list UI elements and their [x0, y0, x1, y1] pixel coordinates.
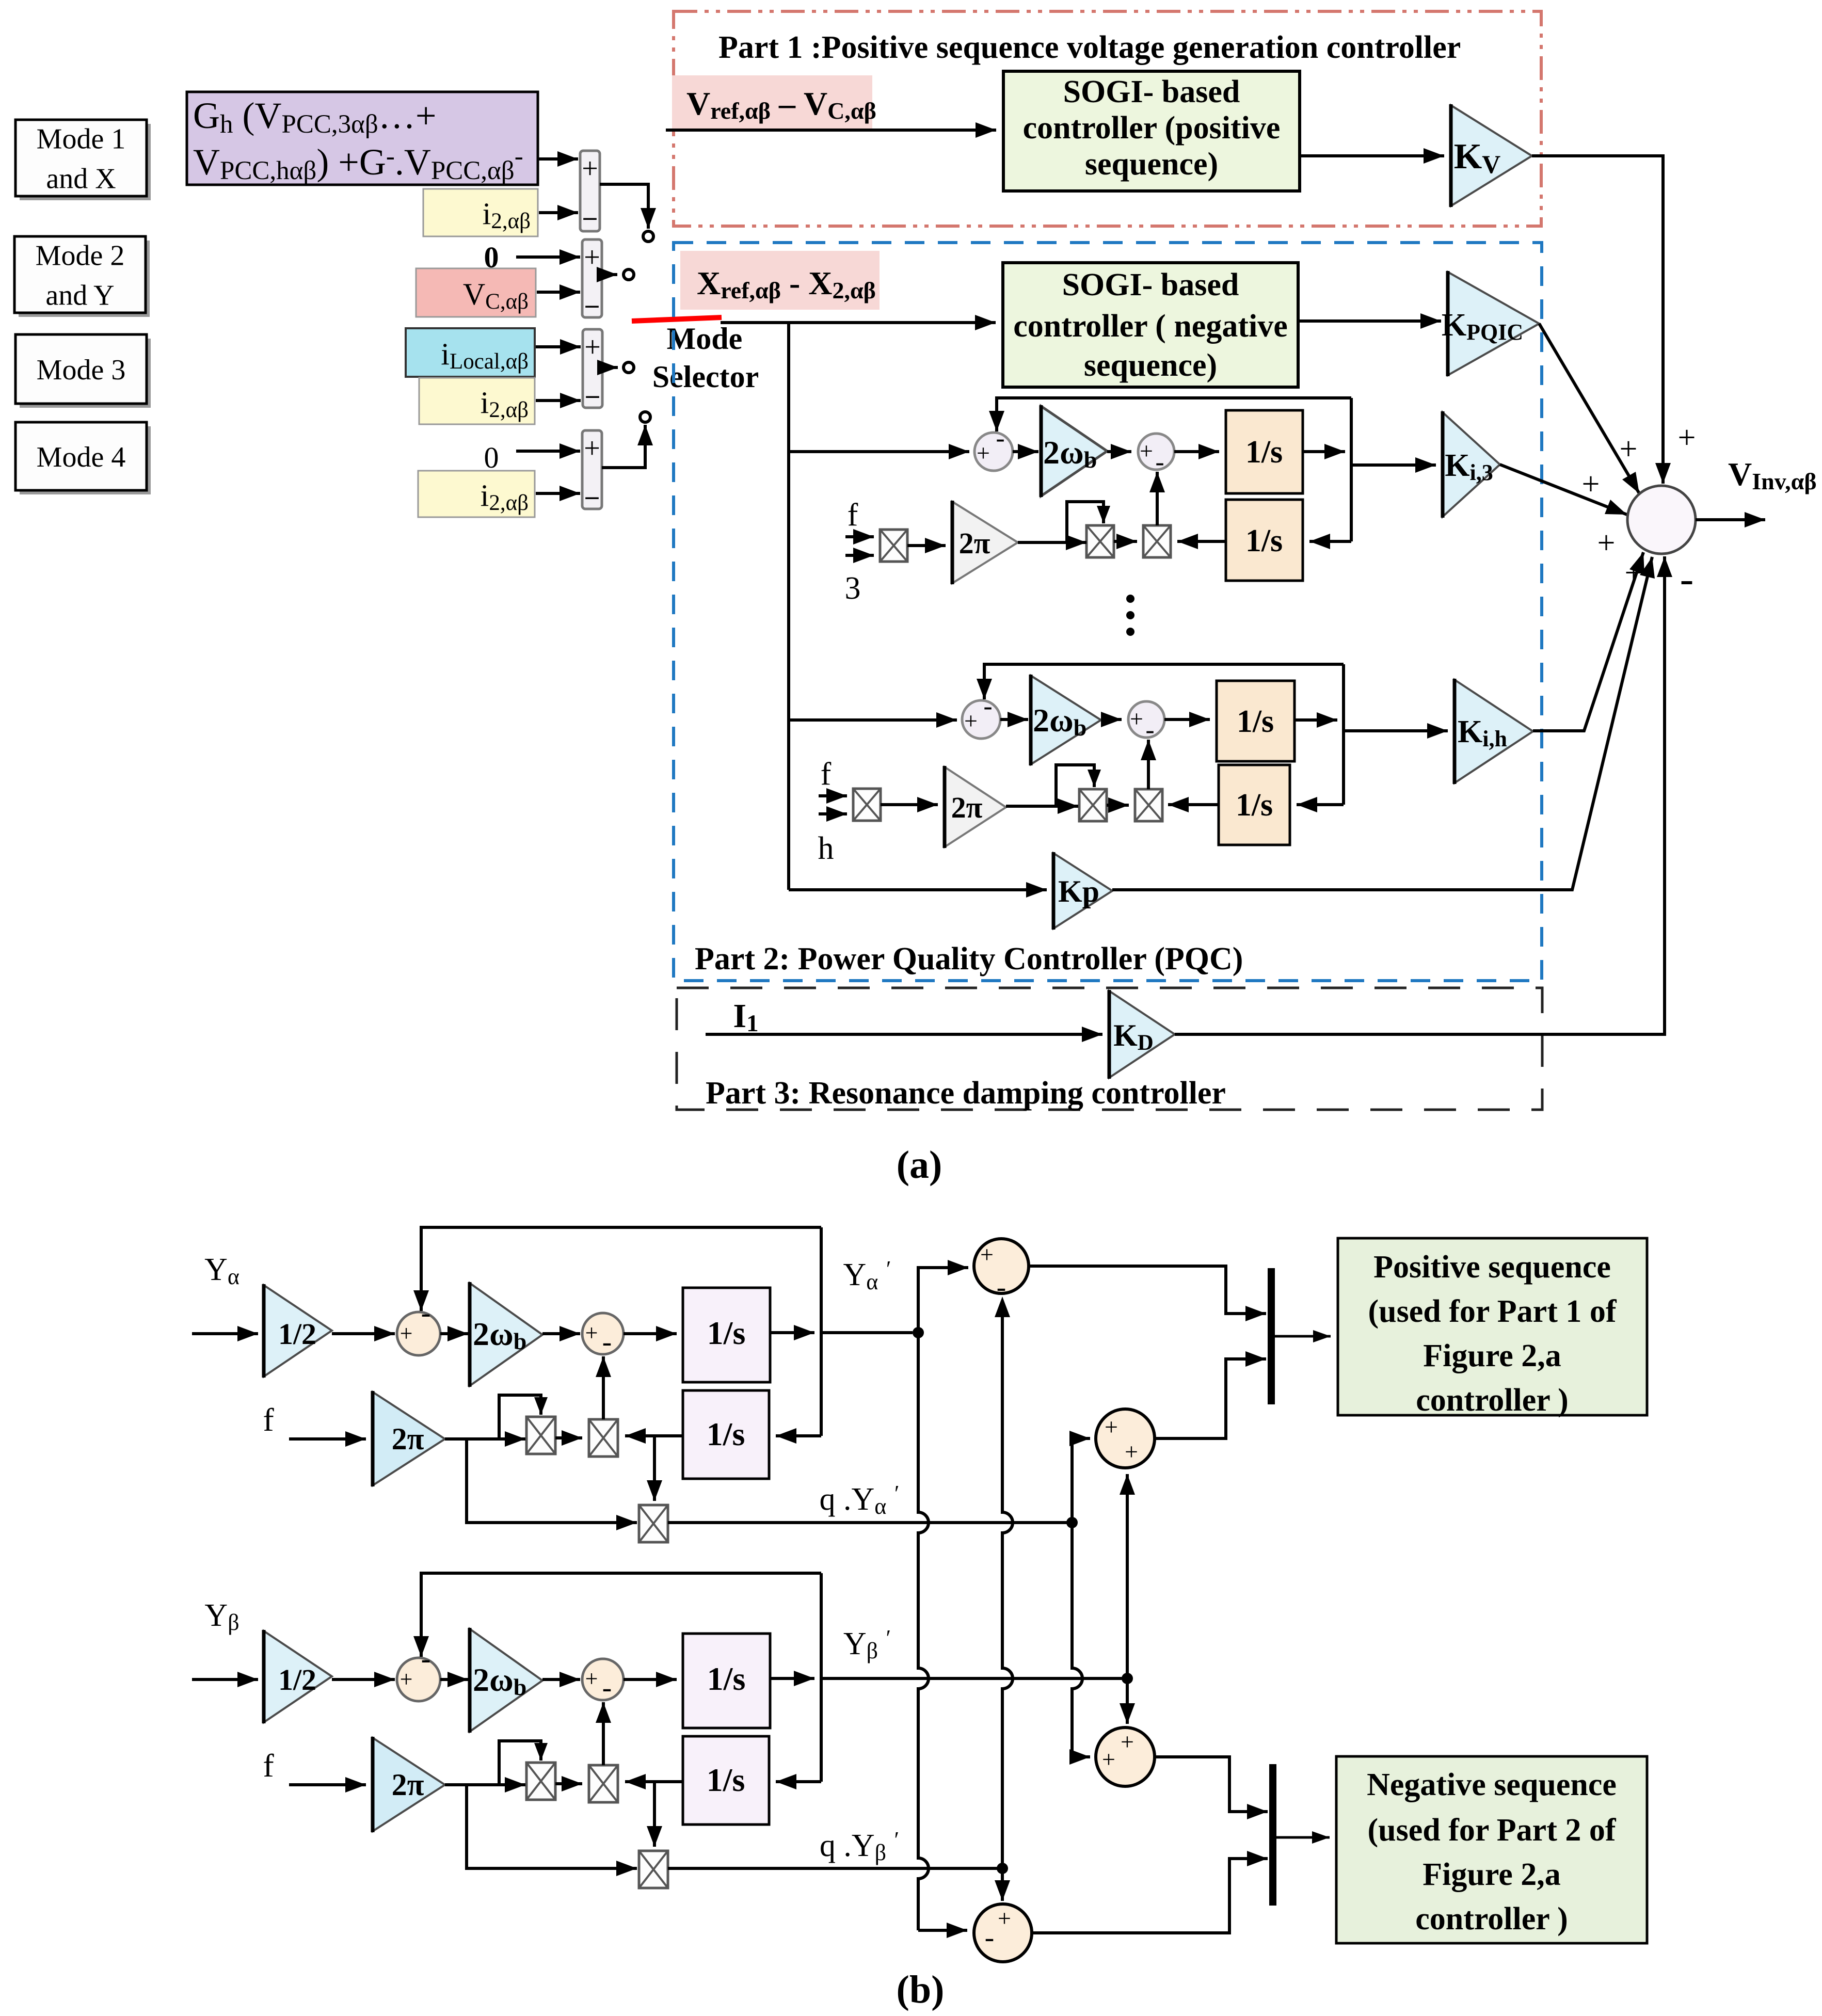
wire 1/s2 to X2 h3	[1177, 540, 1226, 543]
svg-text:–: –	[586, 380, 600, 409]
gain Kp	[1053, 853, 1112, 929]
gain KPQIC	[1448, 272, 1539, 375]
wire 1/s out to bus α	[770, 1331, 814, 1334]
svg-text:controller ): controller )	[1415, 1901, 1568, 1937]
wire 1/s out to bus hh	[1294, 718, 1337, 722]
wire feedback α	[421, 1227, 821, 1311]
svg-text:+: +	[400, 1667, 413, 1692]
wire Ybeta up to C2	[1126, 1474, 1129, 1678]
svg-text:Mode: Mode	[667, 322, 743, 356]
wire sum1 to 2wb β	[440, 1678, 468, 1681]
block 1/s h3-1	[1226, 410, 1303, 493]
wire 2pi loop over X1 β	[499, 1741, 541, 1785]
svg-text:+: +	[998, 1905, 1011, 1931]
Part 3 black dashed border	[677, 988, 1542, 1110]
wire feedback top h3	[997, 398, 1351, 431]
bus bar negative	[1269, 1764, 1276, 1906]
multiplier X2 h3	[1143, 525, 1171, 557]
svg-text:controller ( negative: controller ( negative	[1013, 309, 1287, 344]
sum1 β	[397, 1658, 440, 1701]
multiplier X3 α	[639, 1505, 668, 1542]
sum C3 neg-alpha	[1096, 1727, 1155, 1786]
wire i2-2 to S3-	[536, 399, 581, 402]
multiplier X2 α	[589, 1419, 618, 1457]
svg-text:(b): (b)	[897, 1968, 945, 2011]
wire KD to sum	[1175, 556, 1665, 1034]
svg-text:1/s: 1/s	[707, 1416, 745, 1452]
wire bar1 to posbox	[1275, 1335, 1331, 1338]
wire C4 to bar2	[1032, 1859, 1268, 1933]
switch contact S1	[643, 231, 653, 242]
wire right bus α	[820, 1227, 823, 1436]
gain Ki3	[1443, 412, 1500, 517]
gain 2wb β	[470, 1629, 542, 1732]
svg-text:(a): (a)	[897, 1143, 942, 1187]
wire bus to Ki3	[1351, 463, 1436, 467]
svg-text:Figure 2,a: Figure 2,a	[1423, 1857, 1561, 1892]
wire 1/s out to bus h3	[1303, 450, 1345, 453]
block Negative sequence	[1336, 1756, 1647, 1943]
svg-text:–: –	[583, 202, 597, 231]
gain KV	[1451, 105, 1532, 206]
svg-text:f: f	[821, 757, 832, 792]
svg-text:Mode 3: Mode 3	[37, 354, 126, 386]
svg-text:Figure 2,a: Figure 2,a	[1423, 1338, 1561, 1373]
wire X1 to X2 β	[555, 1782, 582, 1785]
gain 2wb h3	[1041, 406, 1107, 496]
block 1/s β2	[683, 1736, 769, 1825]
svg-text:+: +	[582, 153, 598, 185]
wire 1/2 to sum1 α	[332, 1332, 395, 1335]
junction qYbeta	[997, 1863, 1008, 1874]
wire Yβ into 1/2	[192, 1678, 258, 1681]
wire 1/s out to bus β	[770, 1677, 814, 1680]
multiplier X2 β	[589, 1765, 618, 1802]
wire sum1 to 2wb hh	[1000, 718, 1028, 721]
svg-text:sequence): sequence)	[1085, 147, 1218, 182]
wire Ybeta-prime line	[821, 1677, 1127, 1680]
wire bus to 1/s2 hh	[1297, 803, 1344, 806]
block Positive sequence	[1338, 1238, 1647, 1415]
svg-text:+: +	[1620, 431, 1638, 467]
summing rect S4	[582, 430, 602, 509]
wire Yalpha bus down	[918, 1333, 929, 1930]
block iLocal cyan	[406, 328, 535, 377]
svg-text:+: +	[584, 433, 600, 465]
block 1/s hh-2	[1219, 765, 1290, 845]
wire tap to sum hh	[789, 718, 957, 722]
wire bus to 1/s2 β	[776, 1780, 821, 1783]
svg-text:(used for Part 2 of: (used for Part 2 of	[1368, 1813, 1617, 1848]
wire I1 to KD	[706, 1033, 1102, 1036]
wire 1/2 to sum1 β	[332, 1678, 395, 1681]
svg-text:Mode 1: Mode 1	[37, 123, 126, 155]
block i2ab yellow 3	[418, 471, 535, 517]
wire 2wb to sum2 α	[542, 1332, 580, 1335]
wire sum1 to 2wb h3	[1013, 450, 1038, 453]
wire SOGI1 to KV	[1300, 154, 1444, 157]
svg-text:2π: 2π	[951, 791, 983, 824]
block 1/s α2	[683, 1390, 769, 1479]
wire X1 to X2 h3	[1114, 540, 1137, 543]
svg-text:0: 0	[484, 441, 499, 474]
svg-text:-: -	[602, 1326, 612, 1358]
switch contact S2	[624, 269, 634, 280]
wire S2 output	[602, 273, 617, 276]
svg-text:SOGI- based: SOGI- based	[1063, 74, 1240, 109]
wire 2pi down to X3 β	[467, 1785, 637, 1868]
wire Ki3 to sum diagonal	[1500, 465, 1627, 515]
svg-text:+: +	[1625, 555, 1643, 590]
gain 2wb hh	[1031, 676, 1101, 764]
gain 1/2 α	[264, 1285, 332, 1377]
sum circle hh-2	[1128, 701, 1164, 738]
wire qYalpha up to C2	[1072, 1438, 1090, 1523]
wire mult to 2pi hh	[881, 803, 938, 806]
Part 2 blue dashed border	[674, 243, 1542, 981]
block Mode 4	[15, 422, 151, 494]
wire Yalpha-prime to junction	[821, 1331, 913, 1334]
svg-text:+: +	[964, 708, 978, 734]
block 1/s β1	[683, 1634, 770, 1728]
wire f into mult	[845, 535, 874, 538]
sum2 α	[582, 1313, 624, 1354]
sum C2 pos-beta	[1096, 1409, 1155, 1468]
wire C1 to bar1	[1029, 1266, 1266, 1314]
svg-text:1/s: 1/s	[707, 1315, 746, 1351]
wire tap to Kp	[789, 888, 1047, 891]
wire KV to sum	[1532, 156, 1663, 484]
wire 2pi loop over X1 h3	[1067, 502, 1104, 542]
wire i2-1 to S1-	[539, 211, 578, 214]
wire sum2 to 1/s hh	[1164, 718, 1210, 721]
svg-text:+: +	[584, 331, 601, 363]
wire X2 up to sum2 β	[602, 1702, 605, 1765]
multiplier fh input	[853, 789, 881, 821]
gain KD	[1109, 991, 1175, 1078]
svg-text:1/s: 1/s	[1245, 523, 1283, 558]
block Mode 2 and Y	[14, 236, 150, 317]
svg-text:controller ): controller )	[1416, 1383, 1569, 1418]
wire sum2 to 1/s h3	[1174, 450, 1219, 453]
wire S3 output	[602, 366, 618, 369]
wire f into mult hh	[819, 794, 847, 797]
wire X1 to X2 α	[555, 1436, 582, 1439]
svg-text:1/s: 1/s	[1236, 788, 1273, 823]
wire C3 to bar2	[1155, 1757, 1268, 1812]
label Vref-VC highlighted	[672, 75, 872, 129]
wire X2 up to sum2 h3	[1156, 472, 1159, 525]
wire Ybeta down to C3	[1126, 1678, 1129, 1724]
wire 3 into mult	[845, 554, 874, 557]
svg-text:+: +	[1678, 420, 1696, 455]
vertical ellipsis dots	[1126, 595, 1134, 603]
wire qYbeta line	[668, 1867, 1002, 1870]
svg-text:and Y: and Y	[45, 280, 114, 312]
mode selector red arm	[632, 317, 722, 321]
wire 2pi down to X3 α	[467, 1439, 637, 1523]
svg-text:Mode 2: Mode 2	[36, 240, 125, 272]
svg-text:+: +	[1105, 1414, 1118, 1440]
wire junction down to X3 β	[653, 1782, 656, 1847]
wire f to 2pi α	[289, 1437, 366, 1441]
svg-text:-: -	[602, 1672, 612, 1704]
wire tap to sum h3	[789, 450, 969, 453]
sum C4 neg-beta	[974, 1904, 1032, 1962]
wire qYalpha line	[668, 1521, 1072, 1524]
wire 2pi loop over X1 hh	[1056, 765, 1094, 806]
svg-text:controller (positive: controller (positive	[1023, 110, 1281, 146]
gain 2wb α	[470, 1283, 542, 1386]
wire selector bus vertical	[787, 323, 790, 890]
sum C1 pos-alpha	[974, 1239, 1029, 1293]
sum circle h3-2	[1138, 434, 1174, 470]
svg-text:2π: 2π	[392, 1768, 424, 1802]
block Mode 1 and X	[15, 120, 151, 200]
wire X2 up to sum2 hh	[1147, 740, 1150, 789]
svg-text:sequence): sequence)	[1084, 348, 1217, 383]
svg-text:-: -	[985, 1922, 995, 1954]
svg-text:SOGI- based: SOGI- based	[1062, 267, 1239, 302]
svg-text:-: -	[1680, 556, 1694, 602]
multiplier X1 α	[526, 1417, 555, 1454]
wire i2-3 to S4-	[536, 492, 580, 495]
multiplier X2 hh	[1135, 789, 1162, 821]
wire bus to 1/s2 h3	[1309, 540, 1351, 543]
svg-text:Selector: Selector	[652, 360, 759, 394]
svg-text:+: +	[585, 1320, 598, 1346]
wire 2pi loop over X1 α	[499, 1395, 541, 1439]
wire f to 2pi β	[289, 1783, 366, 1786]
svg-text:2π: 2π	[392, 1422, 424, 1456]
switch contact S4	[640, 412, 650, 422]
wire 2wb to sum2 β	[542, 1678, 580, 1681]
wire 2wb to sum2 h3	[1107, 450, 1131, 453]
svg-text:+: +	[977, 440, 990, 466]
switch contact S3	[624, 362, 634, 373]
block Mode 3	[15, 334, 151, 408]
gain 2pi β	[373, 1738, 445, 1831]
summing rect S3	[583, 329, 602, 408]
bus bar positive	[1268, 1268, 1275, 1404]
wire S4 output elbow	[602, 425, 645, 468]
wire bar2 to negbox	[1276, 1836, 1330, 1839]
junction Ybeta	[1122, 1673, 1133, 1684]
svg-text:–: –	[585, 290, 599, 318]
gain 2pi h3	[952, 502, 1018, 583]
svg-text:f: f	[848, 498, 858, 533]
wire purple to S1+	[539, 157, 578, 161]
svg-text:q .Yβ ′: q .Yβ ′	[820, 1827, 899, 1865]
svg-text:+: +	[1102, 1746, 1115, 1772]
sum2 β	[582, 1659, 624, 1700]
wire C1 minus vertical	[1002, 1304, 1013, 1868]
svg-text:f: f	[263, 1401, 274, 1438]
wire sum2 to 1/s α	[624, 1332, 677, 1335]
svg-text:3: 3	[845, 571, 861, 606]
wire X2 up to sum2 α	[602, 1356, 605, 1419]
gain 2pi hh	[945, 767, 1006, 847]
wire 2pi to X1 β	[445, 1783, 525, 1786]
wire 1/s2 out to X2 α	[625, 1434, 683, 1437]
summing rect S2	[582, 239, 602, 317]
sum1 α	[397, 1312, 440, 1355]
svg-text:Part 2: Power Quality Controll: Part 2: Power Quality Controller (PQC)	[695, 941, 1243, 977]
svg-text:–: –	[585, 481, 599, 510]
wire Yα into 1/2	[192, 1332, 258, 1335]
svg-text:+: +	[1597, 525, 1616, 561]
block i2ab yellow 1	[423, 189, 538, 236]
gain 1/2 β	[264, 1631, 332, 1722]
block i2ab yellow 2	[419, 378, 535, 424]
multiplier f3 input	[880, 530, 907, 562]
svg-text:+: +	[400, 1321, 413, 1346]
wire VInv output	[1696, 518, 1765, 521]
summing rect S1	[580, 151, 600, 231]
wire bus to Kih	[1344, 729, 1448, 732]
wire 0 to S4+	[516, 450, 580, 453]
wire KPQIC to sum diagonal	[1539, 324, 1639, 493]
main summing circle	[1627, 486, 1696, 554]
wire right bus hh	[1342, 664, 1345, 805]
multiplier X3 β	[639, 1851, 668, 1888]
svg-text:Positive sequence: Positive sequence	[1373, 1250, 1611, 1285]
svg-text:+: +	[1125, 1438, 1138, 1465]
svg-text:+: +	[1140, 438, 1153, 464]
multiplier X1 hh	[1079, 789, 1107, 821]
wire feedback β	[421, 1573, 821, 1657]
svg-text:1/s: 1/s	[1237, 704, 1274, 739]
svg-text:+: +	[1130, 706, 1143, 732]
wire 2pi to X1 hh	[1006, 805, 1078, 808]
svg-text:+: +	[1121, 1729, 1134, 1755]
svg-text:+: +	[980, 1241, 994, 1268]
block VCab red	[416, 268, 536, 317]
wire C2 to bar1	[1155, 1359, 1266, 1438]
wire Yalpha bus to C4	[918, 1929, 967, 1932]
wire Xref to SOGI2	[721, 321, 996, 324]
wire sum1 to 2wb α	[440, 1332, 468, 1335]
sum circle hh-1	[962, 700, 1000, 739]
svg-text:Mode 4: Mode 4	[37, 441, 126, 473]
block 1/s hh-1	[1217, 681, 1294, 761]
block 1/s h3-2	[1226, 500, 1303, 581]
svg-text:Part 3: Resonance damping cont: Part 3: Resonance damping controller	[706, 1076, 1226, 1111]
wire junction down to X3 α	[653, 1436, 656, 1501]
gain Kih	[1455, 680, 1533, 783]
wire Kih to sum	[1533, 552, 1643, 731]
svg-text:-: -	[997, 1271, 1006, 1303]
svg-text:+: +	[585, 1666, 598, 1691]
junction Yalpha	[913, 1327, 924, 1338]
svg-text:1/2: 1/2	[278, 1317, 316, 1351]
wire VC to S2-	[537, 291, 580, 294]
wire iLocal to S3+	[536, 345, 581, 348]
wire 0 to S2+	[516, 255, 580, 259]
svg-text:1/2: 1/2	[278, 1663, 316, 1697]
multiplier X1 h3	[1086, 525, 1114, 557]
block SOGI negative	[1003, 263, 1298, 387]
block 1/s α1	[683, 1288, 770, 1382]
wire 2pi to X1 α	[445, 1437, 525, 1441]
wire 1/s2 to X2 hh	[1168, 803, 1219, 806]
wire qYbeta down to C4	[1001, 1868, 1004, 1901]
wire Vref to SOGI1	[666, 129, 996, 132]
wire S1 output elbow	[600, 184, 648, 229]
wire 2wb to sum2 hh	[1101, 718, 1122, 721]
svg-text:+: +	[1582, 467, 1600, 502]
wire feedback top hh	[984, 664, 1344, 699]
wire qYalpha down to C3	[1072, 1523, 1082, 1757]
block SOGI positive	[1003, 71, 1300, 191]
wire 2pi to X1 h3	[1018, 541, 1086, 544]
label Xref-X2 highlighted	[680, 251, 880, 310]
wire h into mult hh	[819, 812, 847, 815]
svg-text:f: f	[263, 1747, 274, 1784]
wire right bus h3	[1350, 398, 1353, 541]
svg-text:1/s: 1/s	[707, 1762, 745, 1798]
svg-text:Part 1 :Positive sequence volt: Part 1 :Positive sequence voltage genera…	[718, 30, 1461, 65]
wire X1 to X2 hh	[1107, 804, 1129, 807]
svg-text:(used for Part 1 of: (used for Part 1 of	[1368, 1294, 1617, 1329]
multiplier X1 β	[526, 1763, 555, 1800]
wire SOGI2 to KPQIC	[1298, 319, 1441, 323]
wire bus to 1/s2 α	[776, 1434, 821, 1437]
sum circle h3-1	[974, 433, 1013, 471]
svg-text:and X: and X	[46, 163, 116, 195]
svg-text:1/s: 1/s	[707, 1660, 746, 1697]
svg-text:q .Yα ′: q .Yα ′	[820, 1481, 900, 1519]
wire mult to 2pi h3	[907, 544, 946, 547]
wire Kp to sum	[1112, 557, 1652, 890]
gain 2pi α	[373, 1392, 445, 1485]
svg-text:Kp: Kp	[1058, 874, 1099, 908]
svg-text:h: h	[818, 831, 834, 866]
block Gh formula (purple)	[187, 92, 538, 185]
junction qYalpha	[1066, 1517, 1078, 1528]
svg-text:1/s: 1/s	[1245, 435, 1283, 470]
wire sum2 to 1/s β	[624, 1678, 677, 1681]
Part 1 dash-dot border	[674, 11, 1541, 226]
wire right bus β	[820, 1573, 823, 1782]
wire 1/s2 out to X2 β	[625, 1780, 683, 1783]
svg-text:2π: 2π	[959, 526, 990, 560]
svg-text:Negative sequence: Negative sequence	[1367, 1767, 1617, 1802]
wire Yalpha to C1	[918, 1268, 968, 1333]
